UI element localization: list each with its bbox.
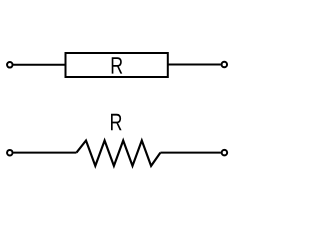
wire (13, 152, 76, 154)
resistor body (rectangle) (66, 53, 168, 77)
wire (168, 64, 221, 66)
label R (112, 57, 123, 73)
terminal right (bottom resistor) (222, 150, 228, 156)
terminal left (bottom resistor) (7, 150, 13, 156)
terminal right (top resistor) (222, 62, 228, 68)
terminal left (top resistor) (7, 62, 13, 68)
resistor R (IEC box symbol) (7, 53, 227, 77)
resistor body (zigzag) (77, 141, 161, 166)
label R (111, 114, 122, 130)
wire (13, 64, 65, 66)
wire (160, 152, 221, 154)
resistor R (ANSI zigzag symbol) (7, 114, 227, 166)
